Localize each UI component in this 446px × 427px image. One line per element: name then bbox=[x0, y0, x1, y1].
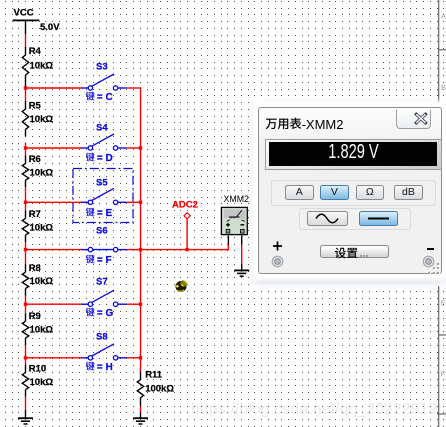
switch S7 key=G bbox=[26, 277, 142, 320]
svg-text:S8: S8 bbox=[96, 332, 108, 343]
ground (under R11) bbox=[133, 412, 148, 424]
minus terminal jack bbox=[420, 254, 438, 272]
switch S5 key=E bbox=[26, 178, 142, 220]
svg-text:R7: R7 bbox=[29, 209, 41, 220]
svg-text:-XMM2: -XMM2 bbox=[301, 116, 343, 131]
wire right bus bbox=[140, 88, 142, 371]
wire segments left chain bbox=[25, 88, 27, 410]
svg-text:= H: = H bbox=[97, 362, 113, 373]
svg-text:R11: R11 bbox=[145, 369, 163, 380]
plus terminal label bbox=[269, 240, 285, 256]
button V (selected) bbox=[320, 185, 349, 200]
display 1.829 V bbox=[265, 139, 442, 170]
svg-text:10kΩ: 10kΩ bbox=[30, 325, 54, 336]
svg-text:5.0V: 5.0V bbox=[40, 22, 60, 33]
button A bbox=[285, 185, 314, 200]
svg-text:= C: = C bbox=[97, 92, 113, 103]
resize grip bbox=[437, 263, 439, 265]
svg-text:S6: S6 bbox=[96, 225, 108, 236]
ground (left, under R10) bbox=[18, 410, 33, 424]
svg-text:F: F bbox=[441, 370, 446, 379]
button ohm bbox=[356, 185, 385, 200]
marker (yellow ball icon) bbox=[176, 280, 187, 292]
svg-text:10kΩ: 10kΩ bbox=[30, 114, 54, 125]
svg-text:XMM2: XMM2 bbox=[224, 194, 250, 204]
svg-text:10kΩ: 10kΩ bbox=[30, 222, 54, 233]
svg-text:S5: S5 bbox=[96, 178, 108, 189]
svg-text:R6: R6 bbox=[29, 154, 41, 165]
junction dots left chain bbox=[24, 86, 27, 359]
svg-text:B: B bbox=[441, 83, 446, 92]
svg-text:S3: S3 bbox=[96, 62, 108, 73]
svg-text:10kΩ: 10kΩ bbox=[30, 168, 54, 179]
svg-text:= E: = E bbox=[97, 208, 113, 219]
selection box around S5 bbox=[73, 169, 133, 223]
junction dots bus bbox=[139, 146, 142, 359]
button DC (selected) bbox=[359, 211, 398, 226]
svg-text:S7: S7 bbox=[96, 277, 108, 288]
multimeter XMM2 icon bbox=[221, 194, 249, 235]
wire XMM2 negative terminal bbox=[241, 236, 243, 271]
ground (under XMM2) bbox=[234, 269, 249, 271]
resistor R6 10k bbox=[22, 154, 53, 187]
resistor R7 10k bbox=[22, 209, 53, 242]
svg-text:= D: = D bbox=[97, 153, 113, 164]
group box modes bbox=[271, 180, 436, 206]
wire S6 row to XMM2 bbox=[141, 236, 229, 251]
svg-text:R5: R5 bbox=[29, 101, 42, 112]
button dB bbox=[394, 185, 423, 200]
switch S4 key=D bbox=[26, 123, 142, 165]
connector strip (cut off at right edge) bbox=[437, 0, 446, 427]
svg-text:R10: R10 bbox=[29, 364, 46, 375]
svg-text:10kΩ: 10kΩ bbox=[30, 276, 54, 287]
switch S8 key=H bbox=[26, 332, 142, 374]
switch S3 key=C bbox=[26, 62, 142, 104]
svg-text:R8: R8 bbox=[29, 263, 41, 274]
button AC (sine) bbox=[307, 211, 348, 226]
wire ADC2 bbox=[186, 219, 188, 250]
svg-text:E: E bbox=[441, 299, 446, 308]
svg-text:ADC2: ADC2 bbox=[172, 200, 198, 211]
group box ac/dc bbox=[299, 208, 411, 230]
svg-text:A: A bbox=[441, 12, 446, 21]
svg-text:= F: = F bbox=[97, 255, 112, 266]
svg-text:100kΩ: 100kΩ bbox=[145, 383, 174, 394]
resistor R9 10k bbox=[22, 311, 53, 345]
multimeter window XMM2 bbox=[258, 107, 442, 274]
svg-text:R9: R9 bbox=[29, 311, 41, 322]
wire VCC-R4 bbox=[25, 34, 27, 47]
power VCC 5.0V bbox=[13, 8, 61, 35]
switch S6 key=F bbox=[26, 225, 142, 266]
svg-text:= G: = G bbox=[97, 308, 114, 319]
resistor R10 10k bbox=[22, 364, 53, 397]
svg-text:https://blog.csdn.net/qq_20222: https://blog.csdn.net/qq_20222919 bbox=[191, 401, 437, 418]
svg-text:S4: S4 bbox=[96, 123, 108, 134]
wire R11-ground bbox=[140, 406, 142, 412]
node ADC2 bbox=[172, 200, 198, 219]
svg-text:...: ... bbox=[360, 247, 369, 259]
resistor R8 10k bbox=[22, 263, 53, 296]
resistor R5 10k bbox=[22, 101, 53, 137]
minus terminal label bbox=[427, 248, 434, 250]
resistor R11 100k bbox=[137, 369, 174, 406]
settings button bbox=[320, 245, 389, 259]
svg-text:10kΩ: 10kΩ bbox=[30, 377, 54, 388]
title bar bbox=[259, 108, 441, 138]
svg-text:VCC: VCC bbox=[14, 8, 34, 19]
junction ADC2 bbox=[185, 248, 188, 251]
plus terminal jack bbox=[269, 254, 287, 272]
resistor R4 10k bbox=[22, 46, 53, 88]
svg-text:10kΩ: 10kΩ bbox=[30, 61, 54, 72]
close button bbox=[396, 109, 431, 129]
svg-text:R4: R4 bbox=[29, 46, 42, 57]
